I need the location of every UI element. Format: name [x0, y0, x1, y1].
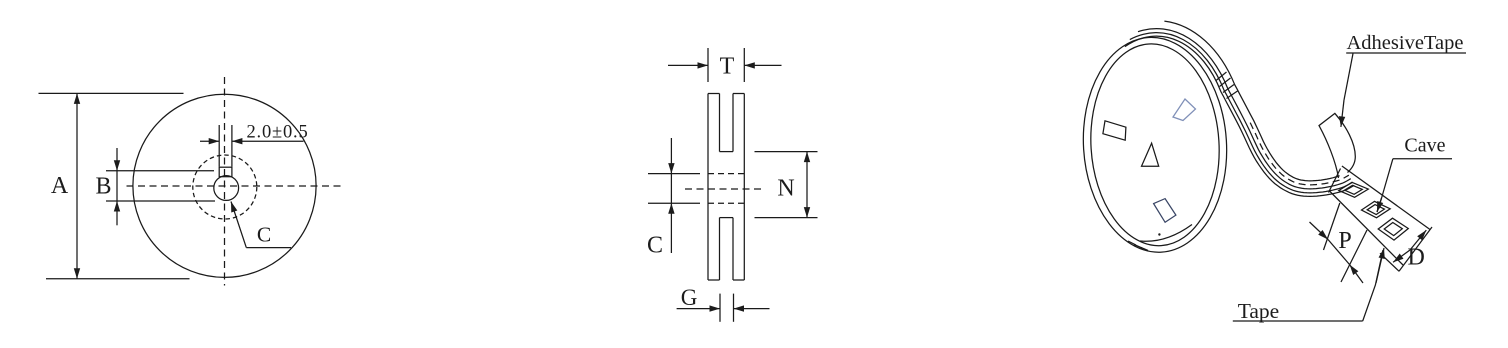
svg-text:Cave: Cave: [1404, 135, 1445, 157]
svg-text:N: N: [777, 176, 794, 202]
top slot: [719, 94, 721, 152]
dim N extension lines: [755, 151, 818, 153]
svg-text:T: T: [720, 54, 735, 80]
vertical centerline (dashed): [224, 77, 226, 286]
dim 2.0 arrows: [200, 140, 219, 142]
carrier strip bottom edge: [1330, 191, 1404, 265]
hub slot bottom line: [106, 200, 215, 202]
tape S-curve line 4: [1138, 29, 1351, 189]
center triangle: [1142, 143, 1159, 166]
dim A vertical line with arrows: [76, 93, 78, 186]
dim G extension lines: [719, 294, 721, 322]
dim C extension lines: [648, 173, 700, 175]
flange top edges: [708, 93, 720, 95]
bottom rim ring arc: [1140, 225, 1192, 242]
svg-text:P: P: [1338, 228, 1351, 254]
dim B vertical line: [116, 148, 118, 171]
D extension (strip bottom edge extended): [1380, 253, 1399, 271]
svg-text:2.0±0.5: 2.0±0.5: [247, 123, 309, 143]
keyway slot on hub: [219, 167, 232, 177]
tape S-curve line 5 (outer): [1164, 21, 1339, 181]
dim 2.0 extension lines: [218, 125, 220, 167]
Cave underline: [1393, 158, 1452, 160]
flange bottom edges: [708, 279, 720, 281]
window rectangle bottom (dark blue): [1154, 199, 1176, 223]
adhesive tape flap: [1319, 113, 1355, 178]
dim N vertical double arrow: [806, 152, 808, 184]
svg-text:C: C: [647, 233, 663, 259]
leader Tape with arrow: [1363, 250, 1383, 321]
tape S-curve dashed centerline: [1250, 123, 1349, 185]
carrier strip end edge: [1399, 227, 1432, 271]
hub slot top line: [106, 170, 214, 172]
cavity rhombus 2: [1362, 201, 1391, 217]
small dot: [1158, 233, 1160, 235]
front flange outer ellipse: [1077, 33, 1233, 256]
svg-text:Tape: Tape: [1238, 299, 1279, 323]
Tape underline: [1233, 320, 1363, 322]
P extension line 1: [1324, 203, 1340, 250]
window parallelogram top-right (blue): [1173, 99, 1196, 121]
AdhesiveTape underline: [1346, 52, 1466, 54]
tape S-curve line 3: [1130, 33, 1353, 193]
rim hatch marks bottom-left: [1128, 241, 1136, 245]
svg-text:A: A: [51, 173, 69, 199]
dim A bottom extension line: [46, 278, 190, 280]
svg-text:G: G: [681, 285, 698, 310]
dim C vertical with arrows: [670, 138, 672, 174]
leader C with arrow: [231, 202, 246, 248]
carrier strip left end edge: [1329, 169, 1341, 193]
carrier strip top edge: [1342, 166, 1430, 230]
D dimension line with arrows: [1410, 230, 1426, 250]
svg-text:C: C: [257, 222, 271, 246]
cavity rhombus 3: [1378, 218, 1408, 240]
right flange outer edge: [743, 94, 745, 281]
cavity rhombus 1 inner: [1345, 185, 1363, 194]
leader AdhesiveTape: [1344, 54, 1353, 101]
hub hidden line top (dashed): [708, 173, 744, 175]
section centerline (dashed): [685, 188, 766, 190]
left flange outer edge: [707, 94, 709, 281]
dim A top extension line: [39, 92, 184, 94]
svg-text:AdhesiveTape: AdhesiveTape: [1347, 32, 1464, 54]
svg-text:D: D: [1408, 244, 1425, 270]
cavity rhombus 1: [1339, 182, 1369, 197]
hub dashed circle: [193, 155, 257, 219]
center hole: [214, 176, 239, 201]
dim T arrows: [668, 64, 708, 66]
tape S-curve line 1 (inner): [1125, 36, 1354, 196]
cavity rhombus 3 inner: [1384, 223, 1402, 236]
bottom slot: [719, 218, 721, 280]
P dimension line with arrows: [1310, 222, 1329, 240]
tape winding hatch ticks: [1216, 72, 1227, 81]
hub hidden line bottom (dashed): [708, 202, 744, 204]
reel outer circle: [133, 94, 316, 277]
leader Cave: [1377, 159, 1393, 212]
dim T extension lines: [707, 48, 709, 82]
window rectangle left: [1103, 121, 1126, 140]
dim G arrows: [677, 308, 720, 310]
cavity rhombus 2 inner: [1367, 205, 1384, 215]
svg-text:B: B: [95, 174, 111, 200]
horizontal centerline (dashed): [127, 185, 343, 187]
front flange inner ellipse: [1085, 40, 1225, 249]
P extension line 2: [1341, 230, 1367, 282]
